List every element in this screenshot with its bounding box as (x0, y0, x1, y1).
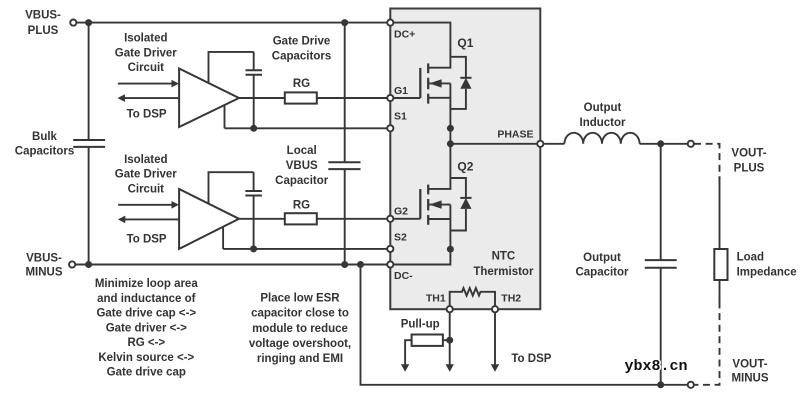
node S2 terminal (387, 246, 393, 252)
thermistor RT1 NTC zigzag (450, 288, 495, 309)
junction top rail at local cap (341, 19, 348, 26)
transistor Q1 source stub and lead (428, 83, 450, 128)
wire dashed VOUT-MINUS branch (694, 302, 720, 385)
transistor Q2 channel segments (427, 185, 429, 225)
label NTC Thermistor (473, 251, 534, 278)
capacitor bulk (on VBUS rail) (73, 23, 105, 265)
transistor Q1 drain wire from DC+ (390, 23, 450, 68)
label Isolated Gate Driver Circuit (lower) (115, 154, 178, 196)
wire output arrow To DSP (lower) (118, 216, 179, 224)
wire S1 to PHASE node (449, 128, 451, 144)
label TH1 (426, 292, 446, 304)
wire pull-up to TH1 leg (443, 339, 450, 341)
wire dashed VOUT-PLUS branch (694, 144, 720, 179)
label TH2 (501, 292, 521, 304)
svg-text:Thermistor: Thermistor (473, 266, 534, 278)
resistor RG (lower) (285, 213, 317, 224)
note Minimize loop area block (95, 278, 198, 379)
junction pull-up to TH1 leg (446, 337, 453, 344)
label Output Capacitor (575, 252, 629, 279)
svg-text:voltage overshoot,: voltage overshoot, (249, 338, 351, 350)
node VOUT-PLUS terminal (688, 141, 694, 147)
svg-text:Impedance: Impedance (737, 267, 797, 279)
wire U2 output to RG2 (239, 218, 285, 220)
svg-text:Output: Output (583, 252, 621, 264)
svg-text:G1: G1 (394, 85, 408, 97)
wire TH1 down leg with arrow (446, 309, 454, 372)
wire kelvin source S1 row (225, 105, 391, 128)
wire kelvin source S2 row (223, 227, 390, 249)
node TH2 terminal (492, 306, 498, 312)
svg-text:Gate drive cap: Gate drive cap (107, 367, 186, 379)
node G2 terminal (387, 216, 393, 222)
svg-text:module to reduce: module to reduce (252, 323, 348, 335)
junction Q2 source S2 (447, 246, 454, 253)
svg-text:Kelvin source <->: Kelvin source <-> (98, 352, 194, 364)
wire PHASE to output inductor (543, 143, 564, 145)
wire TH2 down leg with arrow To DSP (491, 309, 499, 372)
svg-text:ybx8.cn: ybx8.cn (625, 358, 688, 375)
svg-text:VBUS-: VBUS- (26, 253, 62, 265)
junction bottom rail at local cap (341, 261, 348, 268)
transistor Q1 channel segments (427, 63, 429, 103)
wire U1 output to RG (239, 97, 285, 99)
svg-text:RG: RG (293, 199, 310, 211)
junction Q1 source S1 (447, 125, 454, 132)
svg-text:Output: Output (584, 102, 622, 114)
svg-text:Minimize loop area: Minimize loop area (95, 278, 198, 290)
junction gate drive cap to S2 row (250, 245, 257, 252)
label PHASE (497, 129, 533, 141)
capacitor local VBUS cap (328, 23, 360, 265)
wire output arrow To DSP (upper) (118, 94, 180, 102)
wire feedback loop U1 top (209, 52, 254, 83)
transistor Q2 source stub and lead (428, 205, 450, 250)
label Bulk Capacitors (15, 131, 74, 158)
node VOUT-MINUS terminal (688, 382, 694, 388)
label S2 (394, 231, 407, 243)
label Local VBUS Capacitor (275, 145, 329, 187)
svg-text:MINUS: MINUS (25, 267, 62, 279)
svg-text:To DSP: To DSP (127, 233, 167, 245)
svg-text:PLUS: PLUS (28, 25, 59, 37)
capacitor C2 gate drive cap (lower) (245, 172, 262, 249)
svg-text:Capacitor: Capacitor (275, 175, 329, 187)
transistor Q2 body arrow (429, 200, 450, 208)
op-amp U2 isolated gate driver (lower) (179, 189, 239, 249)
wire pull-up left leg with arrow (401, 340, 412, 372)
label DC- (394, 270, 413, 282)
svg-text:PLUS: PLUS (734, 162, 765, 174)
svg-text:VBUS: VBUS (286, 160, 318, 172)
node TH1 terminal (447, 306, 453, 312)
svg-text:Gate driver <->: Gate driver <-> (106, 322, 187, 334)
svg-text:TH1: TH1 (426, 292, 446, 304)
label Isolated Gate Driver Circuit (upper) (115, 33, 178, 75)
label G2 (394, 206, 408, 218)
svg-text:Gate drive cap <->: Gate drive cap <-> (96, 308, 196, 320)
transistor Q1 gate bar and wire (390, 68, 420, 98)
transistor Q1 body arrow (429, 79, 450, 87)
node PHASE terminal (537, 141, 543, 147)
wire bottom rail VBUS-MINUS to DC- (75, 264, 390, 266)
wire bottom return loop (361, 265, 688, 385)
junction PHASE node (447, 140, 454, 147)
label S1 (394, 111, 407, 123)
svg-text:Gate Drive: Gate Drive (273, 36, 331, 48)
svg-text:VBUS-: VBUS- (25, 9, 61, 21)
label VOUT-PLUS (731, 147, 766, 174)
svg-text:To DSP: To DSP (511, 353, 551, 365)
svg-text:and inductance of: and inductance of (97, 293, 196, 305)
svg-text:NTC: NTC (492, 251, 516, 263)
label Gate Drive Capacitors (272, 36, 331, 63)
note Place low ESR capacitor block (249, 293, 351, 365)
label Q1 (457, 36, 473, 50)
svg-text:Q1: Q1 (457, 36, 473, 50)
transistor Q2 gate bar and wire (390, 189, 420, 219)
svg-text:VOUT-: VOUT- (732, 358, 767, 370)
junction output inductor to output cap (657, 140, 664, 147)
node VBUS-MINUS terminal (69, 261, 75, 267)
label G1 (394, 85, 408, 97)
label VOUT-MINUS (731, 358, 768, 384)
svg-text:Circuit: Circuit (128, 183, 165, 195)
svg-text:Isolated: Isolated (124, 154, 167, 166)
junction bottom rail at bulk cap (85, 261, 92, 268)
diode D2 body diode of Q2 (450, 178, 471, 231)
wire solid segment below load (719, 280, 721, 303)
svg-text:Inductor: Inductor (580, 117, 627, 129)
label To DSP (upper) (127, 109, 167, 121)
wire DC- row to Q2 source (390, 249, 450, 264)
svg-text:Pull-up: Pull-up (401, 319, 440, 331)
svg-text:Circuit: Circuit (128, 62, 165, 74)
svg-text:RG <->: RG <-> (127, 337, 165, 349)
svg-text:DC-: DC- (394, 270, 413, 282)
resistor RG (upper) (285, 92, 317, 103)
svg-text:MINUS: MINUS (731, 372, 768, 384)
wire top rail VBUS-PLUS to DC+ (76, 22, 390, 24)
half-bridge power module box (390, 9, 540, 310)
svg-text:Q2: Q2 (457, 159, 473, 173)
wire PHASE row inside module (450, 143, 540, 145)
svg-text:Bulk: Bulk (32, 131, 58, 143)
node G1 terminal (387, 95, 393, 101)
svg-text:To DSP: To DSP (127, 109, 167, 121)
svg-text:G2: G2 (394, 206, 408, 218)
junction bottom rail at return loop (357, 261, 364, 268)
svg-text:capacitor close to: capacitor close to (251, 308, 349, 320)
wire solid segment above load (719, 177, 721, 249)
op-amp U1 isolated gate driver (upper) (179, 69, 239, 128)
label VBUS-PLUS (25, 9, 61, 37)
wire input arrow to U2 (118, 201, 179, 209)
label VBUS-MINUS (25, 253, 62, 279)
wire RG2 to G2 (317, 218, 391, 220)
label Load Impedance (737, 251, 797, 278)
node VBUS-PLUS terminal (70, 20, 76, 26)
wire feedback loop U2 top (209, 172, 254, 204)
svg-text:VOUT-: VOUT- (731, 147, 766, 159)
node DC- terminal (387, 261, 393, 267)
svg-text:S2: S2 (394, 231, 407, 243)
label DC+ (394, 29, 415, 41)
label Pull-up (401, 319, 440, 331)
node S1 terminal (387, 125, 393, 131)
svg-text:Isolated: Isolated (124, 33, 167, 45)
label To DSP (thermistor) (511, 353, 551, 365)
svg-text:ringing and EMI: ringing and EMI (257, 353, 343, 365)
capacitor output capacitor (645, 144, 677, 385)
svg-text:TH2: TH2 (501, 292, 521, 304)
transistor Q2 drain wire from PHASE (428, 144, 450, 189)
label RG (lower) (293, 199, 310, 211)
capacitor C1 gate drive cap (upper) (246, 52, 263, 128)
label To DSP (lower) (127, 233, 167, 245)
junction gate drive cap to S1 row (250, 125, 257, 132)
wire inductor to VOUT-PLUS (640, 143, 688, 145)
svg-text:Load: Load (737, 251, 764, 263)
svg-text:Capacitors: Capacitors (272, 51, 331, 63)
resistor pull-up (412, 335, 443, 346)
watermark ybx8.cn (625, 358, 688, 375)
svg-text:Gate Driver: Gate Driver (115, 48, 178, 60)
node DC+ terminal (387, 20, 393, 26)
svg-text:Gate Driver: Gate Driver (115, 168, 178, 180)
label Output Inductor (580, 102, 627, 129)
wire input arrow to U1 (118, 80, 179, 88)
svg-text:Local: Local (287, 145, 317, 157)
svg-text:Place low ESR: Place low ESR (260, 293, 340, 305)
label RG (upper) (293, 78, 310, 90)
svg-text:S1: S1 (394, 111, 407, 123)
load impedance box (714, 249, 727, 280)
junction top rail at bulk cap (85, 19, 92, 26)
svg-text:DC+: DC+ (394, 29, 415, 41)
svg-text:RG: RG (293, 78, 310, 90)
junction output cap to bottom return (657, 381, 664, 388)
label Q2 (457, 159, 473, 173)
inductor L1 output inductor (564, 133, 639, 144)
svg-text:Capacitor: Capacitor (575, 267, 629, 279)
diode D1 body diode of Q1 (450, 57, 471, 109)
svg-text:PHASE: PHASE (497, 129, 533, 141)
svg-text:Capacitors: Capacitors (15, 145, 74, 157)
wire RG to G1 (317, 97, 391, 99)
